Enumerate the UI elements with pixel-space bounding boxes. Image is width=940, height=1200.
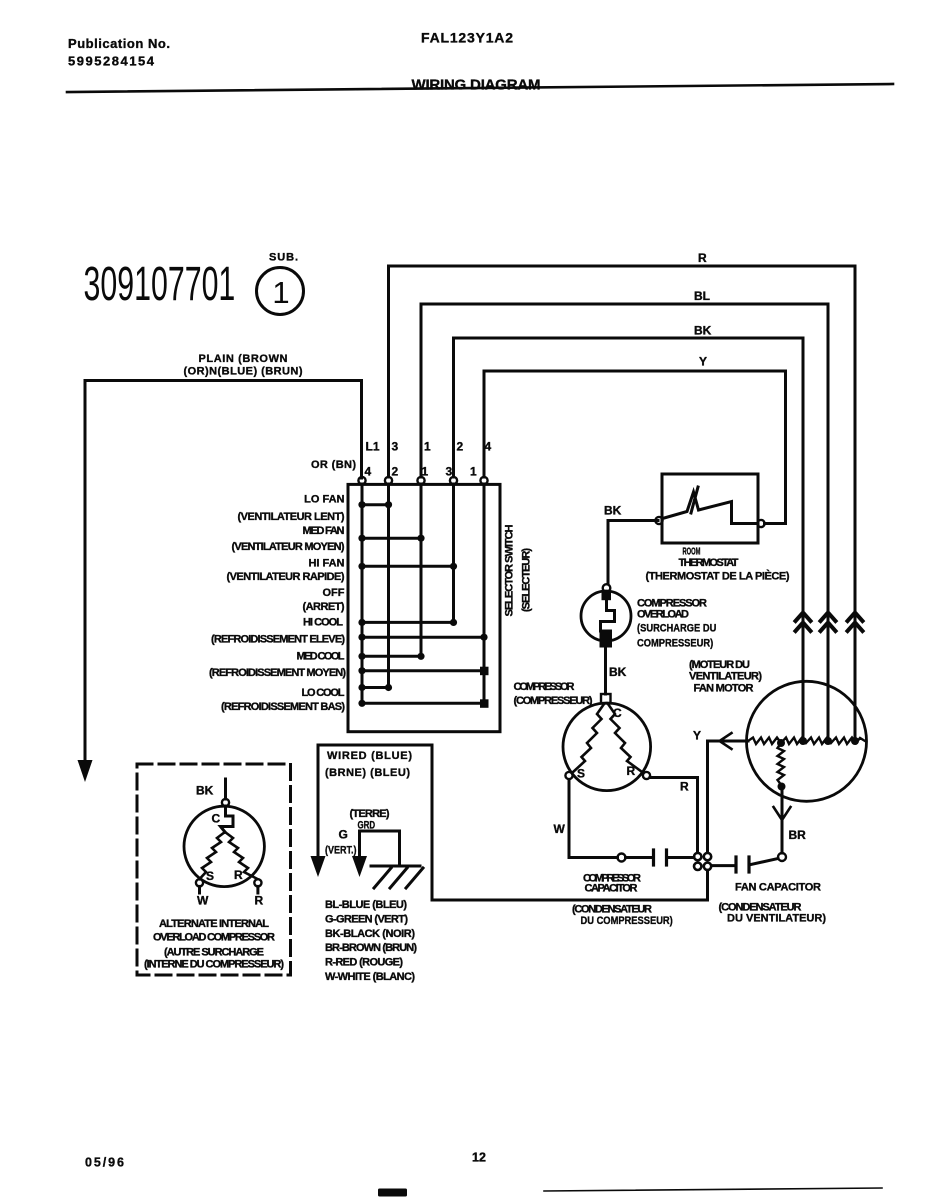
wire capacitor to connector cluster	[668, 856, 694, 859]
svg-text:(THERMOSTAT DE LA PIÈCE): (THERMOSTAT DE LA PIÈCE)	[646, 570, 790, 583]
svg-text:2: 2	[392, 465, 399, 479]
svg-text:S: S	[577, 767, 585, 781]
fan auxiliary winding	[778, 743, 785, 786]
switch contact bar HI COOL b	[362, 636, 484, 639]
compressor capacitor terminal circle	[618, 854, 626, 862]
svg-text:R: R	[698, 251, 707, 265]
overload top contact block	[602, 592, 612, 600]
svg-text:L1: L1	[366, 440, 380, 454]
chassis ground symbol	[371, 865, 420, 868]
svg-text:1: 1	[422, 465, 429, 479]
compressor overload top terminal	[603, 584, 611, 592]
svg-text:Publication No.: Publication No.	[68, 36, 170, 51]
thermostat right contact	[757, 520, 764, 527]
switch contact bar LO COOL a	[362, 686, 389, 689]
footer partial bottom line	[544, 1188, 882, 1191]
svg-text:S: S	[206, 869, 214, 883]
svg-text:OVERLOAD COMPRESSOR: OVERLOAD COMPRESSOR	[153, 932, 275, 944]
wire w4 inside switch	[452, 484, 455, 622]
svg-text:4: 4	[365, 465, 372, 479]
svg-text:SELECTOR SWITCH: SELECTOR SWITCH	[504, 524, 516, 616]
svg-text:C: C	[212, 812, 221, 826]
svg-text:MED FAN: MED FAN	[303, 525, 345, 537]
connector cluster circles	[694, 853, 701, 860]
thermostat blade slash	[691, 487, 698, 513]
wire W from S terminal	[569, 780, 618, 858]
svg-text:(CONDENSATEUR: (CONDENSATEUR	[572, 904, 652, 916]
svg-text:R: R	[255, 894, 264, 908]
wire: brown conductor left drop to plug	[84, 381, 87, 763]
svg-text:(TERRE): (TERRE)	[350, 808, 390, 820]
switch bar junction dots column w1	[358, 501, 365, 508]
alt compressor R terminal	[254, 879, 261, 886]
switch contact bar MED COOL a	[362, 655, 421, 658]
svg-text:LO FAN: LO FAN	[304, 494, 344, 506]
fan winding taps (dots)	[799, 737, 807, 745]
wire fan capacitor to terminal	[751, 859, 778, 865]
svg-text:HI COOL: HI COOL	[303, 617, 343, 629]
sub revision circle 1	[257, 268, 304, 315]
compressor top terminal square	[601, 694, 611, 704]
compressor capacitor plates	[652, 850, 655, 865]
compressor S terminal	[565, 772, 572, 779]
svg-text:Y: Y	[693, 729, 701, 743]
plug arrow (blue wire)	[311, 856, 326, 877]
svg-text:(VENTILATEUR MOYEN): (VENTILATEUR MOYEN)	[232, 541, 345, 553]
svg-text:(BRNE) (BLEU): (BRNE) (BLEU)	[325, 767, 410, 779]
svg-text:W: W	[197, 894, 209, 908]
switch contact bar MED COOL b	[362, 669, 484, 672]
wire BL right vertical to fan motor	[827, 304, 830, 741]
svg-text:G-GREEN (VERT): G-GREEN (VERT)	[325, 914, 408, 926]
switch contact bar HI FAN	[362, 565, 454, 568]
overload body circle	[581, 591, 631, 641]
thermostat left contact	[655, 517, 662, 524]
svg-text:(REFROIDISSEMENT ELEVE): (REFROIDISSEMENT ELEVE)	[211, 634, 345, 646]
svg-text:W-WHITE (BLANC): W-WHITE (BLANC)	[325, 971, 415, 983]
thermostat box	[662, 474, 758, 543]
BR wire arrow	[774, 807, 791, 820]
svg-text:(AUTRE SURCHARGE: (AUTRE SURCHARGE	[164, 947, 264, 959]
svg-text:12: 12	[472, 1151, 486, 1165]
fan capacitor plates	[734, 857, 737, 872]
footer cut-off mark	[378, 1189, 407, 1197]
svg-text:HI FAN: HI FAN	[309, 558, 345, 570]
overload bottom contact block	[600, 630, 613, 648]
svg-text:BK-BLACK (NOIR): BK-BLACK (NOIR)	[325, 928, 415, 940]
plug arrow (brown wire)	[78, 760, 93, 782]
svg-text:(SELECTEUR): (SELECTEUR)	[521, 548, 533, 612]
wire: brown conductor drop to switch terminal L1	[360, 381, 363, 479]
svg-text:(OR)N(BLUE) (BRUN): (OR)N(BLUE) (BRUN)	[184, 366, 303, 378]
svg-text:BL: BL	[694, 289, 710, 303]
alt winding C-R	[225, 832, 258, 879]
svg-text:PLAIN (BROWN: PLAIN (BROWN	[199, 353, 288, 365]
svg-text:(COMPRESSEUR): (COMPRESSEUR)	[514, 695, 593, 707]
Y wire arrow	[720, 733, 732, 749]
wire w5 inside switch	[483, 484, 486, 703]
wire to compressor capacitor	[626, 856, 653, 859]
svg-text:C: C	[613, 706, 622, 720]
svg-text:BK: BK	[604, 504, 622, 518]
switch contact bar LO COOL b	[362, 702, 484, 705]
compressor motor circle	[563, 703, 651, 791]
svg-text:(ARRET): (ARRET)	[303, 601, 345, 613]
switch contact bar MED FAN	[362, 537, 421, 540]
break chevrons on R wire	[848, 613, 863, 632]
svg-text:(MOTEUR DU: (MOTEUR DU	[689, 659, 750, 671]
wire: line cord brown conductor (PLAIN/BROWN) horizontal run	[85, 379, 362, 382]
wire w2 inside switch	[387, 484, 390, 688]
svg-text:BL-BLUE (BLEU): BL-BLUE (BLEU)	[325, 899, 407, 911]
svg-text:OVERLOAD: OVERLOAD	[637, 609, 689, 621]
svg-text:(INTERNE DU COMPRESSEUR): (INTERNE DU COMPRESSEUR)	[144, 959, 284, 971]
ground wire bracket	[360, 831, 400, 866]
break chevrons on BL wire	[821, 613, 836, 632]
svg-text:3: 3	[446, 465, 453, 479]
svg-text:2: 2	[457, 440, 464, 454]
svg-text:(VENTILATEUR LENT): (VENTILATEUR LENT)	[238, 511, 345, 523]
svg-text:BR-BROWN (BRUN): BR-BROWN (BRUN)	[325, 942, 417, 954]
svg-text:FAN MOTOR: FAN MOTOR	[694, 683, 754, 695]
svg-text:R: R	[627, 764, 636, 778]
plug arrow (green ground wire)	[352, 856, 367, 877]
wire w3 inside switch	[420, 484, 423, 656]
svg-text:(SURCHARGE DU: (SURCHARGE DU	[637, 623, 716, 635]
fan capacitor terminal circle	[778, 853, 786, 861]
wire BK right vertical to fan motor	[802, 338, 805, 741]
fan motor main winding	[748, 738, 865, 745]
svg-text:R: R	[680, 780, 689, 794]
wire cluster to fan capacitor	[712, 864, 735, 867]
alt compressor terminal stubs	[198, 886, 201, 893]
svg-text:BR: BR	[789, 828, 807, 842]
alt compressor circle	[184, 806, 264, 886]
svg-text:309107701: 309107701	[84, 257, 236, 311]
svg-text:VENTILATEUR): VENTILATEUR)	[689, 671, 762, 683]
svg-text:Y: Y	[699, 355, 707, 369]
wire w4 (BK) riser to top line	[454, 338, 804, 477]
svg-text:05/96: 05/96	[85, 1156, 124, 1170]
alt internal overload element	[221, 806, 234, 832]
wire R right vertical to fan motor	[854, 266, 857, 741]
svg-text:BK: BK	[609, 665, 627, 679]
alt compressor lead	[224, 779, 227, 799]
svg-text:1: 1	[272, 275, 289, 310]
svg-text:G: G	[339, 828, 348, 842]
wire w5 (Y) riser to top line	[484, 371, 786, 477]
wire Y vertical down to thermostat	[765, 371, 786, 524]
switch contact bar HI COOL a	[362, 621, 454, 624]
svg-text:BK: BK	[694, 324, 712, 338]
svg-text:GRD: GRD	[358, 819, 376, 832]
wire w1 L1 inside switch	[361, 484, 364, 703]
wire neutral: cluster down, across bottom, up left side	[318, 745, 708, 900]
wire BK thermostat to overload	[608, 521, 658, 585]
svg-text:DU COMPRESSEUR): DU COMPRESSEUR)	[581, 915, 673, 927]
thermostat blade	[663, 492, 758, 524]
svg-text:WIRING DIAGRAM: WIRING DIAGRAM	[412, 77, 541, 94]
alt compressor top terminal	[222, 799, 229, 806]
dashed alternate-compressor box	[137, 764, 291, 975]
svg-text:THERMOSTAT: THERMOSTAT	[679, 557, 739, 569]
svg-text:COMPRESSEUR): COMPRESSEUR)	[637, 638, 713, 650]
selector switch box	[348, 484, 500, 731]
svg-text:BK: BK	[196, 784, 214, 798]
svg-text:ROOM: ROOM	[683, 545, 701, 557]
wire w2 (R) riser to top line	[389, 266, 856, 477]
svg-text:FAL123Y1A2: FAL123Y1A2	[421, 30, 513, 46]
svg-text:WIRED (BLUE): WIRED (BLUE)	[327, 750, 412, 762]
wire w3 (BL) riser to top line	[421, 304, 828, 477]
wire R from compressor R terminal to cluster	[650, 778, 698, 853]
alt compressor S terminal	[196, 879, 203, 886]
svg-text:MED COOL: MED COOL	[297, 651, 345, 663]
svg-text:COMPRESSOR: COMPRESSOR	[514, 681, 575, 693]
svg-text:CAPACITOR: CAPACITOR	[585, 883, 638, 895]
svg-text:R-RED (ROUGE): R-RED (ROUGE)	[325, 957, 403, 969]
svg-text:SUB.: SUB.	[269, 252, 298, 264]
switch contact bar LO FAN	[362, 503, 389, 506]
svg-text:1: 1	[424, 440, 431, 454]
svg-text:OFF: OFF	[323, 587, 345, 599]
alt winding C-S	[200, 832, 226, 879]
title underline rule	[67, 84, 893, 92]
svg-text:3: 3	[392, 440, 399, 454]
compressor R terminal	[643, 772, 650, 779]
svg-text:LO COOL: LO COOL	[302, 687, 345, 699]
switch bar end dots	[385, 501, 392, 508]
svg-text:OR (BN): OR (BN)	[311, 459, 356, 471]
switch terminal circles	[358, 477, 365, 484]
svg-text:1: 1	[470, 465, 477, 479]
compressor winding C-R	[608, 704, 644, 773]
svg-text:FAN CAPACITOR: FAN CAPACITOR	[735, 882, 821, 894]
svg-text:(VENTILATEUR RAPIDE): (VENTILATEUR RAPIDE)	[227, 571, 345, 583]
svg-text:(REFROIDISSEMENT BAS): (REFROIDISSEMENT BAS)	[221, 701, 345, 713]
svg-text:DU VENTILATEUR): DU VENTILATEUR)	[727, 913, 826, 925]
svg-text:4: 4	[485, 440, 492, 454]
overload bimetal element	[601, 600, 615, 631]
wire BK overload to compressor	[604, 648, 607, 695]
break chevrons on BK wire	[796, 613, 811, 632]
wire Y fan motor left exit	[708, 741, 749, 853]
compressor winding C-S	[572, 704, 604, 773]
svg-text:R: R	[234, 868, 243, 882]
svg-text:ALTERNATE INTERNAL: ALTERNATE INTERNAL	[159, 918, 269, 930]
svg-text:5995284154: 5995284154	[68, 54, 155, 69]
svg-text:W: W	[554, 822, 566, 836]
svg-text:(REFROIDISSEMENT MOYEN): (REFROIDISSEMENT MOYEN)	[209, 667, 346, 679]
wire BR from aux winding to fan capacitor	[781, 788, 784, 853]
svg-text:(VERT.): (VERT.)	[325, 845, 357, 857]
fan motor circle	[747, 681, 867, 801]
